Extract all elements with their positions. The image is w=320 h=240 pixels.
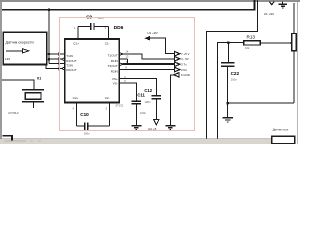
svg-text:7 +5 V: 7 +5 V [181, 52, 190, 56]
svg-text:13: 13 [125, 55, 128, 59]
svg-text:DD6: DD6 [114, 25, 124, 31]
box: speed sensor (Датчик скорости) [3, 32, 47, 64]
svg-text:VS-: VS- [113, 81, 118, 85]
svg-text:32768Hz: 32768Hz [8, 111, 19, 115]
svg-text:100n: 100n [84, 132, 90, 136]
capacitor C22 [227, 43, 229, 63]
connector X2 arrow pin 2 [175, 67, 180, 71]
capacitor C12 [152, 95, 161, 97]
capacitor C11 [132, 100, 142, 102]
ground under connector GND [165, 125, 175, 127]
connector X2 arrow pin 3 [175, 62, 180, 66]
pin 4 stub (C2+) [75, 103, 77, 127]
svg-text:4 - 9V: 4 - 9V [181, 57, 189, 61]
window chrome top edge [0, 0, 300, 2]
svg-text:C2+: C2+ [73, 96, 79, 100]
wire: sensor/bus to pin 11 T1IN [47, 53, 65, 55]
wire: right vertical from top box corner down (left rail) [207, 0, 258, 138]
svg-text:R13: R13 [247, 35, 256, 40]
resistor R13 [244, 41, 260, 45]
arrow inside sensor box [6, 50, 23, 52]
window chrome right border [297, 2, 298, 144]
pin 6 VS- wire to C11 [119, 83, 136, 101]
ground (top right) [282, 1, 284, 3]
svg-text:146: 146 [5, 57, 10, 61]
svg-text:R1OUT: R1OUT [66, 59, 77, 63]
capacitor C10 [76, 125, 84, 127]
svg-text:ST232: ST232 [115, 104, 123, 108]
power tag U2 +5 (down arrow) [154, 119, 159, 125]
wire: from right rail to GND junction [228, 102, 294, 104]
wire: GND pin of connector down to ground [170, 75, 174, 125]
svg-text:R2OUT: R2OUT [66, 68, 77, 72]
selection rectangle (pink) [59, 18, 194, 131]
wire: inner L down to bottom (second rail) [218, 43, 244, 139]
svg-text:C12: C12 [144, 88, 152, 93]
window chrome bottom bar [0, 137, 272, 140]
crystal X1 [2, 80, 34, 90]
node: junction on MCU bottom edge [48, 8, 51, 11]
svg-text:X1: X1 [37, 76, 41, 80]
pin 3 stub (C1-) [107, 26, 109, 39]
wire: vertical bus from MCU to DD6 left pins [48, 10, 50, 64]
wire: bus to pin 10 T2IN [49, 63, 65, 65]
op-amp/IC DD6 (MAX232) body [65, 39, 120, 103]
svg-text:T1OUT: T1OUT [108, 54, 118, 58]
svg-text:C11: C11 [137, 93, 145, 98]
svg-text:10k: 10k [245, 46, 250, 50]
power tag V (top right) [269, 2, 274, 5]
svg-text:6 GND: 6 GND [181, 73, 190, 77]
svg-text:T2OUT: T2OUT [108, 64, 118, 68]
svg-text:U1 +9V: U1 +9V [147, 31, 158, 35]
svg-text:C2-: C2- [105, 96, 110, 100]
ground below C22 [223, 117, 233, 119]
svg-text:C22: C22 [231, 71, 240, 76]
pin 2 VS+ wire to C12 [119, 79, 156, 96]
node: junction at C22 bottom / GND rail [226, 102, 229, 105]
svg-text:3 Tx: 3 Tx [181, 62, 187, 66]
svg-text:14: 14 [125, 50, 128, 54]
capacitor C9 [78, 25, 91, 27]
svg-text:C10: C10 [80, 112, 89, 117]
svg-text:100n: 100n [231, 78, 237, 82]
resistor (vertical, on right rail) [293, 3, 295, 34]
wire: sensor box corner to pin 9 R2OUT [46, 65, 65, 69]
box corner bottom left [3, 136, 12, 141]
connector X2 arrow pin 7 [175, 52, 180, 56]
svg-text:R2IN: R2IN [111, 69, 118, 73]
pin 13 R1IN stub [119, 58, 127, 60]
pin 8 R2IN wire to connector [119, 69, 174, 71]
svg-text:C1+: C1+ [73, 42, 79, 46]
MCU box bottom edge (big box at top) [2, 0, 255, 10]
ground under C11 [131, 125, 141, 127]
connector X2 arrow pin 4 [175, 57, 180, 61]
svg-text:T1IN: T1IN [66, 54, 73, 58]
svg-text:Датчик топл: Датчик топл [273, 128, 289, 132]
svg-text:T2IN: T2IN [66, 63, 73, 67]
connector X2 arrow pin 6 [174, 73, 179, 77]
pin 1 stub (C1+) [77, 26, 79, 39]
svg-text:Датчик скорости: Датчик скорости [6, 41, 34, 45]
svg-text:R1IN: R1IN [111, 59, 118, 63]
node: junction C22 top [227, 41, 230, 44]
wire: bus to pin 12 R1OUT [49, 58, 65, 60]
svg-text:2 Rx: 2 Rx [181, 68, 187, 72]
svg-text:100n: 100n [140, 111, 146, 115]
pin 14 T1OUT wire to connector [119, 53, 123, 56]
pin 7 T2OUT wire to connector [119, 63, 123, 66]
pin 5 stub (C2-) [108, 103, 110, 127]
svg-text:C1-: C1- [105, 42, 110, 46]
svg-text:100n: 100n [145, 100, 151, 104]
svg-text:U1 +9V: U1 +9V [264, 12, 275, 16]
window chrome left edge [0, 2, 2, 139]
